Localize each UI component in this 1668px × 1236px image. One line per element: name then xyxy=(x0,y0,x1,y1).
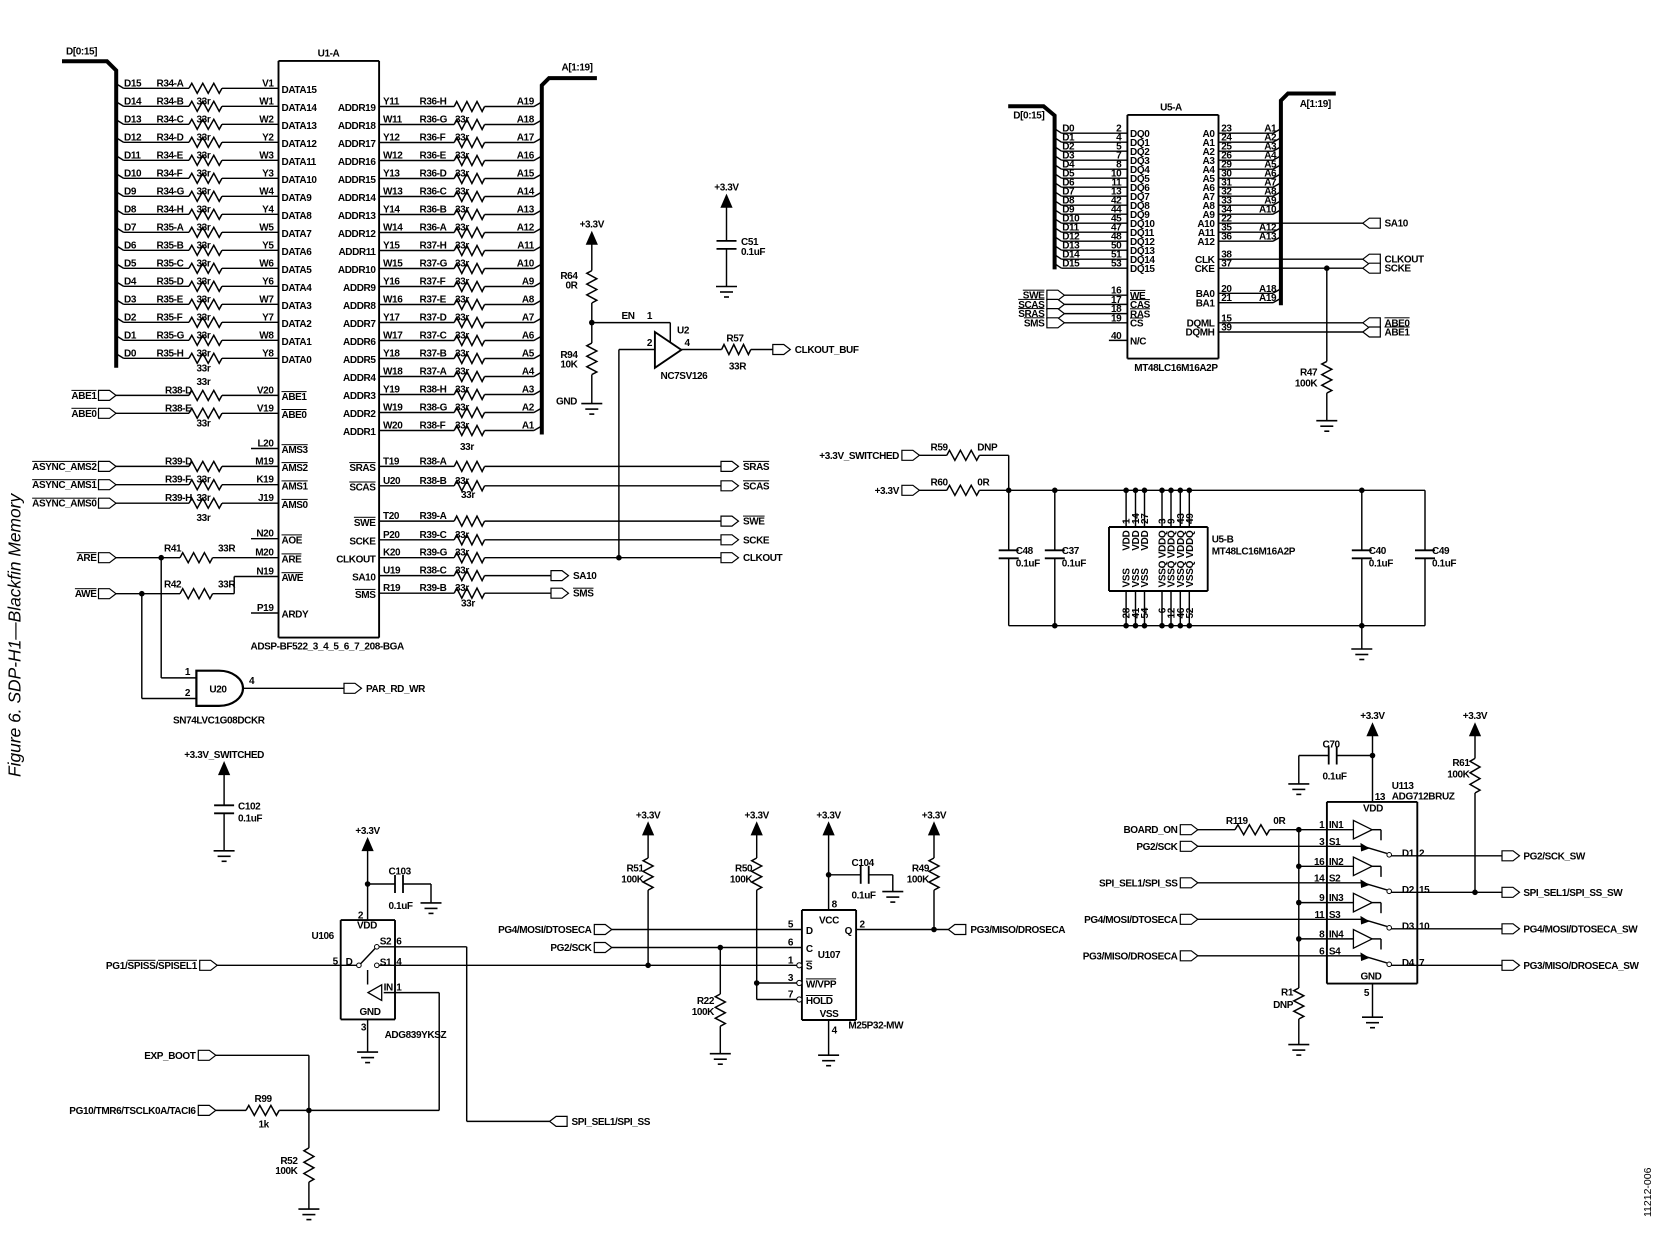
switch S3 xyxy=(1315,910,1392,930)
wire ABE0 to V19 xyxy=(116,412,279,414)
node ARE input flag xyxy=(77,553,116,565)
pin A6 (31) xyxy=(1203,178,1278,194)
wire BA0 to bus A18 xyxy=(1219,289,1281,294)
svg-text:100K: 100K xyxy=(1295,379,1318,390)
wire A3 to bus A4 xyxy=(1219,156,1281,161)
wire D14 to W1 xyxy=(116,102,278,107)
svg-text:U20: U20 xyxy=(383,476,401,487)
svg-text:DATA12: DATA12 xyxy=(282,139,318,150)
svg-text:R1: R1 xyxy=(1281,988,1294,999)
value label 33r xyxy=(197,513,211,524)
resistor R47 100K xyxy=(1295,361,1332,393)
resistor R38-D 33r xyxy=(165,385,307,403)
svg-text:D2: D2 xyxy=(124,312,137,323)
svg-text:R19: R19 xyxy=(383,583,401,594)
svg-text:49: 49 xyxy=(1185,513,1196,524)
svg-text:Y8: Y8 xyxy=(262,348,274,359)
svg-text:1: 1 xyxy=(185,667,191,678)
svg-text:ABE1: ABE1 xyxy=(282,392,308,403)
svg-text:D11: D11 xyxy=(124,150,141,161)
svg-text:33r: 33r xyxy=(197,330,211,341)
svg-text:PG4/MOSI/DTOSECA: PG4/MOSI/DTOSECA xyxy=(1084,915,1178,926)
svg-text:R38-C: R38-C xyxy=(420,566,447,577)
pin DQ11 (47) xyxy=(1062,223,1155,239)
wire D6 to Y5 xyxy=(116,246,278,251)
resistor R1 DNP xyxy=(1273,988,1304,1020)
pin DQ2 (5) xyxy=(1062,142,1150,158)
power +3.3V (R49) xyxy=(922,810,947,858)
pin DQML (15) xyxy=(1187,313,1233,329)
node +3.3V_SWITCHED flag xyxy=(819,450,919,462)
wire U2 pin2 vertical xyxy=(618,350,620,558)
svg-text:U5-B: U5-B xyxy=(1212,535,1234,546)
svg-text:ADDR14: ADDR14 xyxy=(338,193,376,204)
node SRAS flag (U5-A) xyxy=(1018,309,1064,321)
svg-text:AOE: AOE xyxy=(282,535,303,546)
svg-text:33r: 33r xyxy=(197,132,211,143)
svg-text:R57: R57 xyxy=(726,333,744,344)
wire S2 pin6 to SPI_SEL1/SPI_SS flag xyxy=(379,947,549,1122)
svg-text:M20: M20 xyxy=(255,548,274,559)
wire D10 to DQ10 xyxy=(1055,219,1128,224)
wire U107 VSS to GND xyxy=(828,1020,830,1055)
svg-text:+3.3V_SWITCHED: +3.3V_SWITCHED xyxy=(819,451,899,462)
svg-text:A12: A12 xyxy=(1197,237,1215,248)
svg-text:D0: D0 xyxy=(124,348,137,359)
svg-text:27: 27 xyxy=(1140,513,1151,524)
resistor R38-H 33r xyxy=(343,385,535,403)
wire DQML to ABE0 flag xyxy=(1219,322,1363,324)
svg-text:D: D xyxy=(346,957,353,968)
ground (C104) xyxy=(882,891,903,893)
wire R57 to CLKOUT_BUF xyxy=(751,349,773,351)
capacitor C102 0.1uF xyxy=(214,802,262,825)
pin VDD (14) top xyxy=(1131,488,1142,551)
svg-text:W4: W4 xyxy=(259,186,274,197)
capacitor C40 0.1uF xyxy=(1352,490,1393,625)
svg-text:100K: 100K xyxy=(275,1166,298,1177)
svg-text:R34-H: R34-H xyxy=(157,204,184,215)
junction rail/C40 bottom xyxy=(1359,623,1365,629)
node SCAS flag (U5-A) xyxy=(1018,299,1064,311)
pin DQ15 (53) xyxy=(1062,259,1155,275)
wire ADDR13 to bus A13 xyxy=(379,210,542,215)
wire ADDR15 to bus A15 xyxy=(379,174,542,179)
wire ADDR5 to bus A5 xyxy=(379,354,542,359)
svg-text:ADDR19: ADDR19 xyxy=(338,103,376,114)
svg-text:R39-A: R39-A xyxy=(420,511,447,522)
pin VSSQ (12) bottom xyxy=(1167,560,1178,628)
wire R61 to D2 xyxy=(1474,793,1476,892)
svg-text:A8: A8 xyxy=(522,295,535,306)
svg-text:SPI_SEL1/SPI_SS_SW: SPI_SEL1/SPI_SS_SW xyxy=(1523,888,1623,899)
resistor R35-B 33r xyxy=(124,240,312,258)
resistor R36-G 33r xyxy=(338,115,535,133)
svg-text:S4: S4 xyxy=(1329,946,1341,957)
svg-text:33r: 33r xyxy=(197,348,211,359)
junction Q/R49 xyxy=(931,927,937,933)
svg-text:R34-B: R34-B xyxy=(157,96,184,107)
wire VDD rail (top) xyxy=(979,489,1425,491)
svg-text:ADDR8: ADDR8 xyxy=(343,301,376,312)
svg-text:DQ15: DQ15 xyxy=(1130,264,1155,275)
wire D5 to W6 xyxy=(116,264,278,269)
svg-text:M19: M19 xyxy=(255,456,274,467)
svg-text:33r: 33r xyxy=(455,530,469,541)
svg-text:W11: W11 xyxy=(383,115,403,126)
wire D0 to DQ0 xyxy=(1055,129,1128,134)
pin VSS (41) bottom xyxy=(1131,568,1142,629)
resistor R39-A 33r xyxy=(354,511,485,529)
svg-text:GND: GND xyxy=(556,397,577,408)
svg-text:ADDR13: ADDR13 xyxy=(338,211,376,222)
svg-text:DATA3: DATA3 xyxy=(282,301,313,312)
pin C (6) xyxy=(788,938,813,956)
resistor R35-C 33r xyxy=(124,258,312,276)
bus A[1:19] (U5-A side) xyxy=(1281,94,1336,306)
svg-text:D15: D15 xyxy=(1062,259,1080,270)
svg-text:2: 2 xyxy=(647,338,653,349)
svg-text:R39-G: R39-G xyxy=(420,548,448,559)
pin P19 ARDY stub xyxy=(251,603,309,621)
svg-text:A10: A10 xyxy=(517,259,535,270)
wire A6 to bus A7 xyxy=(1219,183,1281,188)
svg-text:R41: R41 xyxy=(164,544,182,555)
svg-text:33r: 33r xyxy=(455,277,469,288)
wire D10 to Y3 xyxy=(116,174,278,179)
svg-text:19: 19 xyxy=(1111,313,1122,324)
wire ADDR16 to bus A16 xyxy=(379,156,542,161)
node CLKOUT flag (U5-A) xyxy=(1363,254,1424,266)
svg-text:5: 5 xyxy=(1364,988,1370,999)
wire ADDR2 to bus A2 xyxy=(379,408,542,413)
svg-text:A1: A1 xyxy=(522,421,535,432)
wire IN4 xyxy=(1299,938,1327,940)
svg-text:ADDR18: ADDR18 xyxy=(338,121,376,132)
svg-text:8: 8 xyxy=(1319,929,1325,940)
pin A8 (33) xyxy=(1203,196,1278,212)
pin DQ3 (7) xyxy=(1062,151,1150,167)
svg-text:D2: D2 xyxy=(1402,885,1415,896)
svg-text:33R: 33R xyxy=(218,544,236,555)
svg-text:ADDR2: ADDR2 xyxy=(343,409,376,420)
svg-text:Y7: Y7 xyxy=(262,312,274,323)
svg-text:Y6: Y6 xyxy=(262,276,274,287)
pin D2 (15) xyxy=(1402,885,1430,896)
svg-text:0.1uF: 0.1uF xyxy=(1432,559,1456,570)
wire D7 to W5 xyxy=(116,228,278,233)
pin DQMH (39) xyxy=(1186,323,1233,339)
resistor R37-G 33r xyxy=(338,259,535,277)
wire D8 to Y4 xyxy=(116,210,278,215)
svg-text:R42: R42 xyxy=(164,580,182,591)
wire A9 to bus A10 xyxy=(1219,210,1281,215)
svg-text:VSS: VSS xyxy=(820,1009,840,1020)
svg-text:DATA6: DATA6 xyxy=(282,247,313,258)
resistor R36-F 33r xyxy=(338,133,535,151)
svg-text:DATA13: DATA13 xyxy=(282,121,318,132)
node SPI_SEL1/SPI_SS_SW flag xyxy=(1502,887,1623,899)
pin CLK (38) xyxy=(1195,250,1232,266)
wire D15 to DQ15 xyxy=(1055,264,1128,269)
svg-text:Y15: Y15 xyxy=(383,241,400,252)
wire D2 to Y7 xyxy=(116,318,278,323)
svg-text:10: 10 xyxy=(1419,921,1430,932)
svg-text:R34-G: R34-G xyxy=(157,186,185,197)
ground (R1) xyxy=(1288,1044,1309,1046)
pin DQ12 (48) xyxy=(1062,232,1155,248)
wire D13 to W2 xyxy=(116,120,278,125)
svg-text:D15: D15 xyxy=(124,78,142,89)
svg-text:D1: D1 xyxy=(124,330,137,341)
wire D4 to DQ4 xyxy=(1055,165,1128,170)
svg-text:N19: N19 xyxy=(256,567,274,578)
svg-text:0.1uF: 0.1uF xyxy=(741,247,765,258)
pin DQ10 (45) xyxy=(1062,214,1155,230)
capacitor C49 0.1uF xyxy=(1415,490,1456,625)
wire SWE to flag SWE xyxy=(379,520,721,522)
resistor R35-A 33r xyxy=(124,222,312,240)
wire D12 to DQ12 xyxy=(1055,237,1128,242)
wire D4 to PG3/MISO/DROSECA_SW xyxy=(1392,964,1503,966)
svg-text:11212-006: 11212-006 xyxy=(1642,1167,1654,1217)
wire R99 to junction xyxy=(279,1109,439,1111)
pin DQ14 (51) xyxy=(1062,250,1155,266)
svg-text:PG2/SCK: PG2/SCK xyxy=(550,943,592,954)
svg-text:Q: Q xyxy=(845,926,853,937)
svg-text:ADG712BRUZ: ADG712BRUZ xyxy=(1392,792,1455,803)
svg-text:ADDR6: ADDR6 xyxy=(343,337,376,348)
svg-text:R47: R47 xyxy=(1300,368,1318,379)
svg-text:D1: D1 xyxy=(1402,848,1415,859)
resistor R38-B 33r xyxy=(349,476,484,494)
resistor R34-A 33r xyxy=(124,78,317,96)
svg-text:DNP: DNP xyxy=(977,442,998,453)
svg-text:3: 3 xyxy=(1319,837,1325,848)
ground (U113) xyxy=(1362,1016,1383,1018)
svg-text:D14: D14 xyxy=(124,96,142,107)
svg-text:C40: C40 xyxy=(1369,546,1387,557)
svg-text:R38-F: R38-F xyxy=(420,421,446,432)
svg-text:33r: 33r xyxy=(197,168,211,179)
junction rail/C37 xyxy=(1052,488,1058,494)
svg-text:J19: J19 xyxy=(258,493,274,504)
resistor R39-H 33r xyxy=(165,493,309,511)
wire CKE junction to R47 xyxy=(1326,268,1328,361)
svg-text:33r: 33r xyxy=(455,583,469,594)
svg-text:A12: A12 xyxy=(517,223,535,234)
svg-text:P19: P19 xyxy=(257,603,274,614)
IC U5-B MT48LC16M16A2P box xyxy=(1109,527,1296,591)
wire SCKE to flag SCKE xyxy=(379,539,721,541)
resistor R37-F 33r xyxy=(343,277,535,295)
pin A3 (26) xyxy=(1203,151,1278,167)
svg-text:T20: T20 xyxy=(383,511,400,522)
svg-text:PG1/SPISS/SPISEL1: PG1/SPISS/SPISEL1 xyxy=(106,961,198,972)
svg-text:R60: R60 xyxy=(931,477,949,488)
node PG2/SCK flag (U107) xyxy=(550,943,611,955)
svg-text:100K: 100K xyxy=(730,875,753,886)
buffer IN1 xyxy=(1319,820,1381,840)
node PG4/MOSI/DTOSECA flag (U113) xyxy=(1084,914,1198,926)
resistor R22 100K xyxy=(692,994,726,1026)
wire ARE to M20 xyxy=(116,557,279,559)
svg-text:R36-F: R36-F xyxy=(420,133,446,144)
resistor R35-H 33r xyxy=(124,348,312,366)
svg-text:AMS0: AMS0 xyxy=(282,500,309,511)
svg-text:+3.3V: +3.3V xyxy=(1463,711,1488,722)
wire IN pin1 to boot node xyxy=(384,993,440,1111)
node ASYNC_AMS1 input flag xyxy=(32,480,116,492)
resistor R37-B 33r xyxy=(343,349,535,367)
wire AWE to U20 pin2 xyxy=(142,594,197,699)
svg-text:0R: 0R xyxy=(977,477,990,488)
svg-text:33r: 33r xyxy=(197,312,211,323)
power +3.3V (R64) xyxy=(580,220,605,271)
node ASYNC_AMS0 input flag xyxy=(32,498,116,510)
svg-text:A10: A10 xyxy=(1259,205,1277,216)
wire R94 to GND xyxy=(591,375,593,404)
svg-text:C: C xyxy=(806,944,813,955)
resistor R99 1k xyxy=(246,1094,279,1130)
svg-text:DATA15: DATA15 xyxy=(282,85,318,96)
svg-text:R22: R22 xyxy=(697,996,715,1007)
svg-text:54: 54 xyxy=(1140,607,1151,618)
junction ARE/U20 xyxy=(158,555,164,561)
svg-text:SCKE: SCKE xyxy=(349,537,376,548)
svg-text:T19: T19 xyxy=(383,456,400,467)
svg-text:W20: W20 xyxy=(383,421,403,432)
svg-text:SA10: SA10 xyxy=(352,572,376,583)
svg-text:ADDR10: ADDR10 xyxy=(338,265,376,276)
svg-text:R36-G: R36-G xyxy=(420,115,448,126)
wire PG2/SCK to S1 xyxy=(1198,845,1361,847)
wire C102 to GND xyxy=(223,813,225,851)
wire D15 to V1 xyxy=(116,84,278,89)
svg-text:A[1:19]: A[1:19] xyxy=(1300,99,1331,110)
svg-text:33r: 33r xyxy=(461,599,475,610)
node PG2/SCK_SW flag xyxy=(1502,851,1586,863)
svg-text:5: 5 xyxy=(788,920,794,931)
svg-text:7: 7 xyxy=(788,990,794,1001)
svg-text:R39-B: R39-B xyxy=(420,583,447,594)
svg-text:PG3/MISO/DROSECA: PG3/MISO/DROSECA xyxy=(1083,951,1178,962)
svg-text:Figure 6. SDP-H1—Blackfin Memo: Figure 6. SDP-H1—Blackfin Memory xyxy=(5,493,25,777)
node PG2/SCK flag (U113) xyxy=(1136,841,1197,853)
svg-text:A13: A13 xyxy=(517,205,535,216)
ground (C102) xyxy=(214,850,235,852)
svg-text:52: 52 xyxy=(1185,607,1196,618)
svg-text:+3.3V: +3.3V xyxy=(636,810,661,821)
resistor R59 DNP xyxy=(931,442,998,460)
svg-text:0R: 0R xyxy=(566,281,579,292)
svg-text:R36-C: R36-C xyxy=(420,187,447,198)
svg-text:ABE1: ABE1 xyxy=(71,391,97,402)
resistor R34-B 33r xyxy=(124,96,317,114)
ground (U107 VSS) xyxy=(818,1054,839,1056)
power +3.3V (C51) xyxy=(714,183,739,241)
wire AWE to N19 (with jog) xyxy=(116,577,279,594)
svg-text:VCC: VCC xyxy=(819,915,839,926)
svg-text:R37-B: R37-B xyxy=(420,349,447,360)
wire +3.3V to R60 xyxy=(919,489,946,491)
svg-text:A3: A3 xyxy=(522,385,535,396)
resistor R50 100K xyxy=(730,858,762,890)
wire C70 to GND xyxy=(1299,756,1329,784)
svg-text:W16: W16 xyxy=(383,295,403,306)
svg-text:L20: L20 xyxy=(257,439,274,450)
capacitor C37 0.1uF xyxy=(1045,490,1086,625)
svg-text:4: 4 xyxy=(396,957,402,968)
node CLKOUT_BUF output flag xyxy=(773,345,859,357)
svg-text:33r: 33r xyxy=(455,259,469,270)
svg-text:Y12: Y12 xyxy=(383,133,400,144)
svg-text:SWE: SWE xyxy=(743,517,765,528)
junction rail/C37 bottom xyxy=(1052,623,1058,629)
svg-text:A2: A2 xyxy=(522,403,535,414)
svg-text:BOARD_ON: BOARD_ON xyxy=(1123,825,1177,836)
switch U106 internals xyxy=(333,937,403,1001)
svg-text:R37-A: R37-A xyxy=(420,367,447,378)
wire D3 to DQ3 xyxy=(1055,156,1128,161)
wire R59 to rail xyxy=(979,455,1008,490)
node PG4/MOSI/DTOSECA_SW flag xyxy=(1502,924,1638,936)
wire ADDR4 to bus A4 xyxy=(379,372,542,377)
svg-text:W2: W2 xyxy=(259,114,274,125)
pin A5 (30) xyxy=(1203,169,1278,185)
svg-text:SCKE: SCKE xyxy=(1385,264,1412,275)
pin DQ8 (42) xyxy=(1062,196,1150,212)
svg-text:33r: 33r xyxy=(455,223,469,234)
svg-text:+3.3V: +3.3V xyxy=(355,826,380,837)
svg-text:W7: W7 xyxy=(259,294,274,305)
wire CKE to SCKE flag xyxy=(1219,267,1363,269)
svg-text:Y18: Y18 xyxy=(383,349,400,360)
svg-text:R37-E: R37-E xyxy=(420,295,447,306)
svg-text:C48: C48 xyxy=(1016,546,1034,557)
svg-text:7: 7 xyxy=(1419,958,1425,969)
resistor R39-D 33r xyxy=(165,456,309,474)
wire junction to R52 xyxy=(308,1110,310,1148)
wire A0 to bus A1 xyxy=(1219,129,1281,134)
pin VDD (27) top xyxy=(1140,488,1151,551)
wire ADDR11 to bus A11 xyxy=(379,246,542,251)
node SCKE flag (U5-A) xyxy=(1363,263,1412,275)
capacitor C51 0.1uF xyxy=(717,237,766,258)
wire S1 pin4 to U107 S xyxy=(379,964,796,966)
svg-text:Y19: Y19 xyxy=(383,385,400,396)
svg-text:DQMH: DQMH xyxy=(1186,328,1215,339)
svg-text:EN: EN xyxy=(622,311,635,322)
svg-text:33r: 33r xyxy=(455,385,469,396)
wire BA1 to bus A19 xyxy=(1219,298,1281,303)
svg-text:DATA11: DATA11 xyxy=(282,157,317,168)
svg-text:6: 6 xyxy=(396,937,402,948)
node BOARD_ON flag xyxy=(1123,825,1197,837)
wire R47 to GND xyxy=(1326,393,1328,421)
svg-text:DATA4: DATA4 xyxy=(282,283,313,294)
svg-text:AMS2: AMS2 xyxy=(282,463,309,474)
pin DQ5 (10) xyxy=(1062,169,1150,185)
wire IN2 xyxy=(1299,865,1327,867)
svg-text:DATA14: DATA14 xyxy=(282,103,318,114)
junction rail/C40 xyxy=(1359,488,1365,494)
svg-text:SA10: SA10 xyxy=(1385,219,1409,230)
svg-text:MT48LC16M16A2P: MT48LC16M16A2P xyxy=(1212,547,1296,558)
capacitor C103 0.1uF xyxy=(389,867,413,912)
wire U107 Q to flag xyxy=(856,929,948,931)
junction IN2 xyxy=(1296,864,1302,870)
